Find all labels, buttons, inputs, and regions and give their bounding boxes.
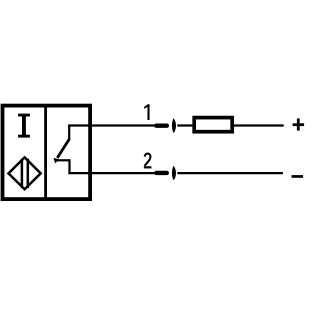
divider wall — [44, 108, 47, 198]
diamond inner line right — [27, 159, 30, 189]
label I (inductive) — [18, 114, 30, 138]
minus terminal — [292, 175, 304, 178]
switch fixed contact horizontal — [55, 159, 70, 161]
wire 1 to load — [177, 124, 194, 126]
connector socket 2 — [172, 166, 176, 181]
switch vertical stub top — [68, 125, 70, 141]
diamond inner line left — [21, 159, 24, 189]
connector socket 1 — [172, 118, 176, 133]
proximity sensor diamond — [9, 157, 41, 189]
switch fixed contact vertical — [68, 159, 70, 174]
wire 1 — [68, 124, 154, 126]
connector pin 1 — [156, 123, 167, 127]
wire 1 to plus — [234, 124, 284, 126]
switch blade — [57, 139, 69, 158]
sensor body box — [3, 106, 91, 200]
wire 2 — [68, 172, 154, 174]
connector pin 2 — [156, 171, 167, 175]
label 2 — [144, 154, 152, 168]
plus terminal — [293, 118, 305, 130]
load resistor — [194, 118, 232, 132]
switch blade arrowhead — [53, 158, 59, 164]
label 1 — [144, 104, 150, 120]
wire 2 to minus — [177, 172, 283, 174]
